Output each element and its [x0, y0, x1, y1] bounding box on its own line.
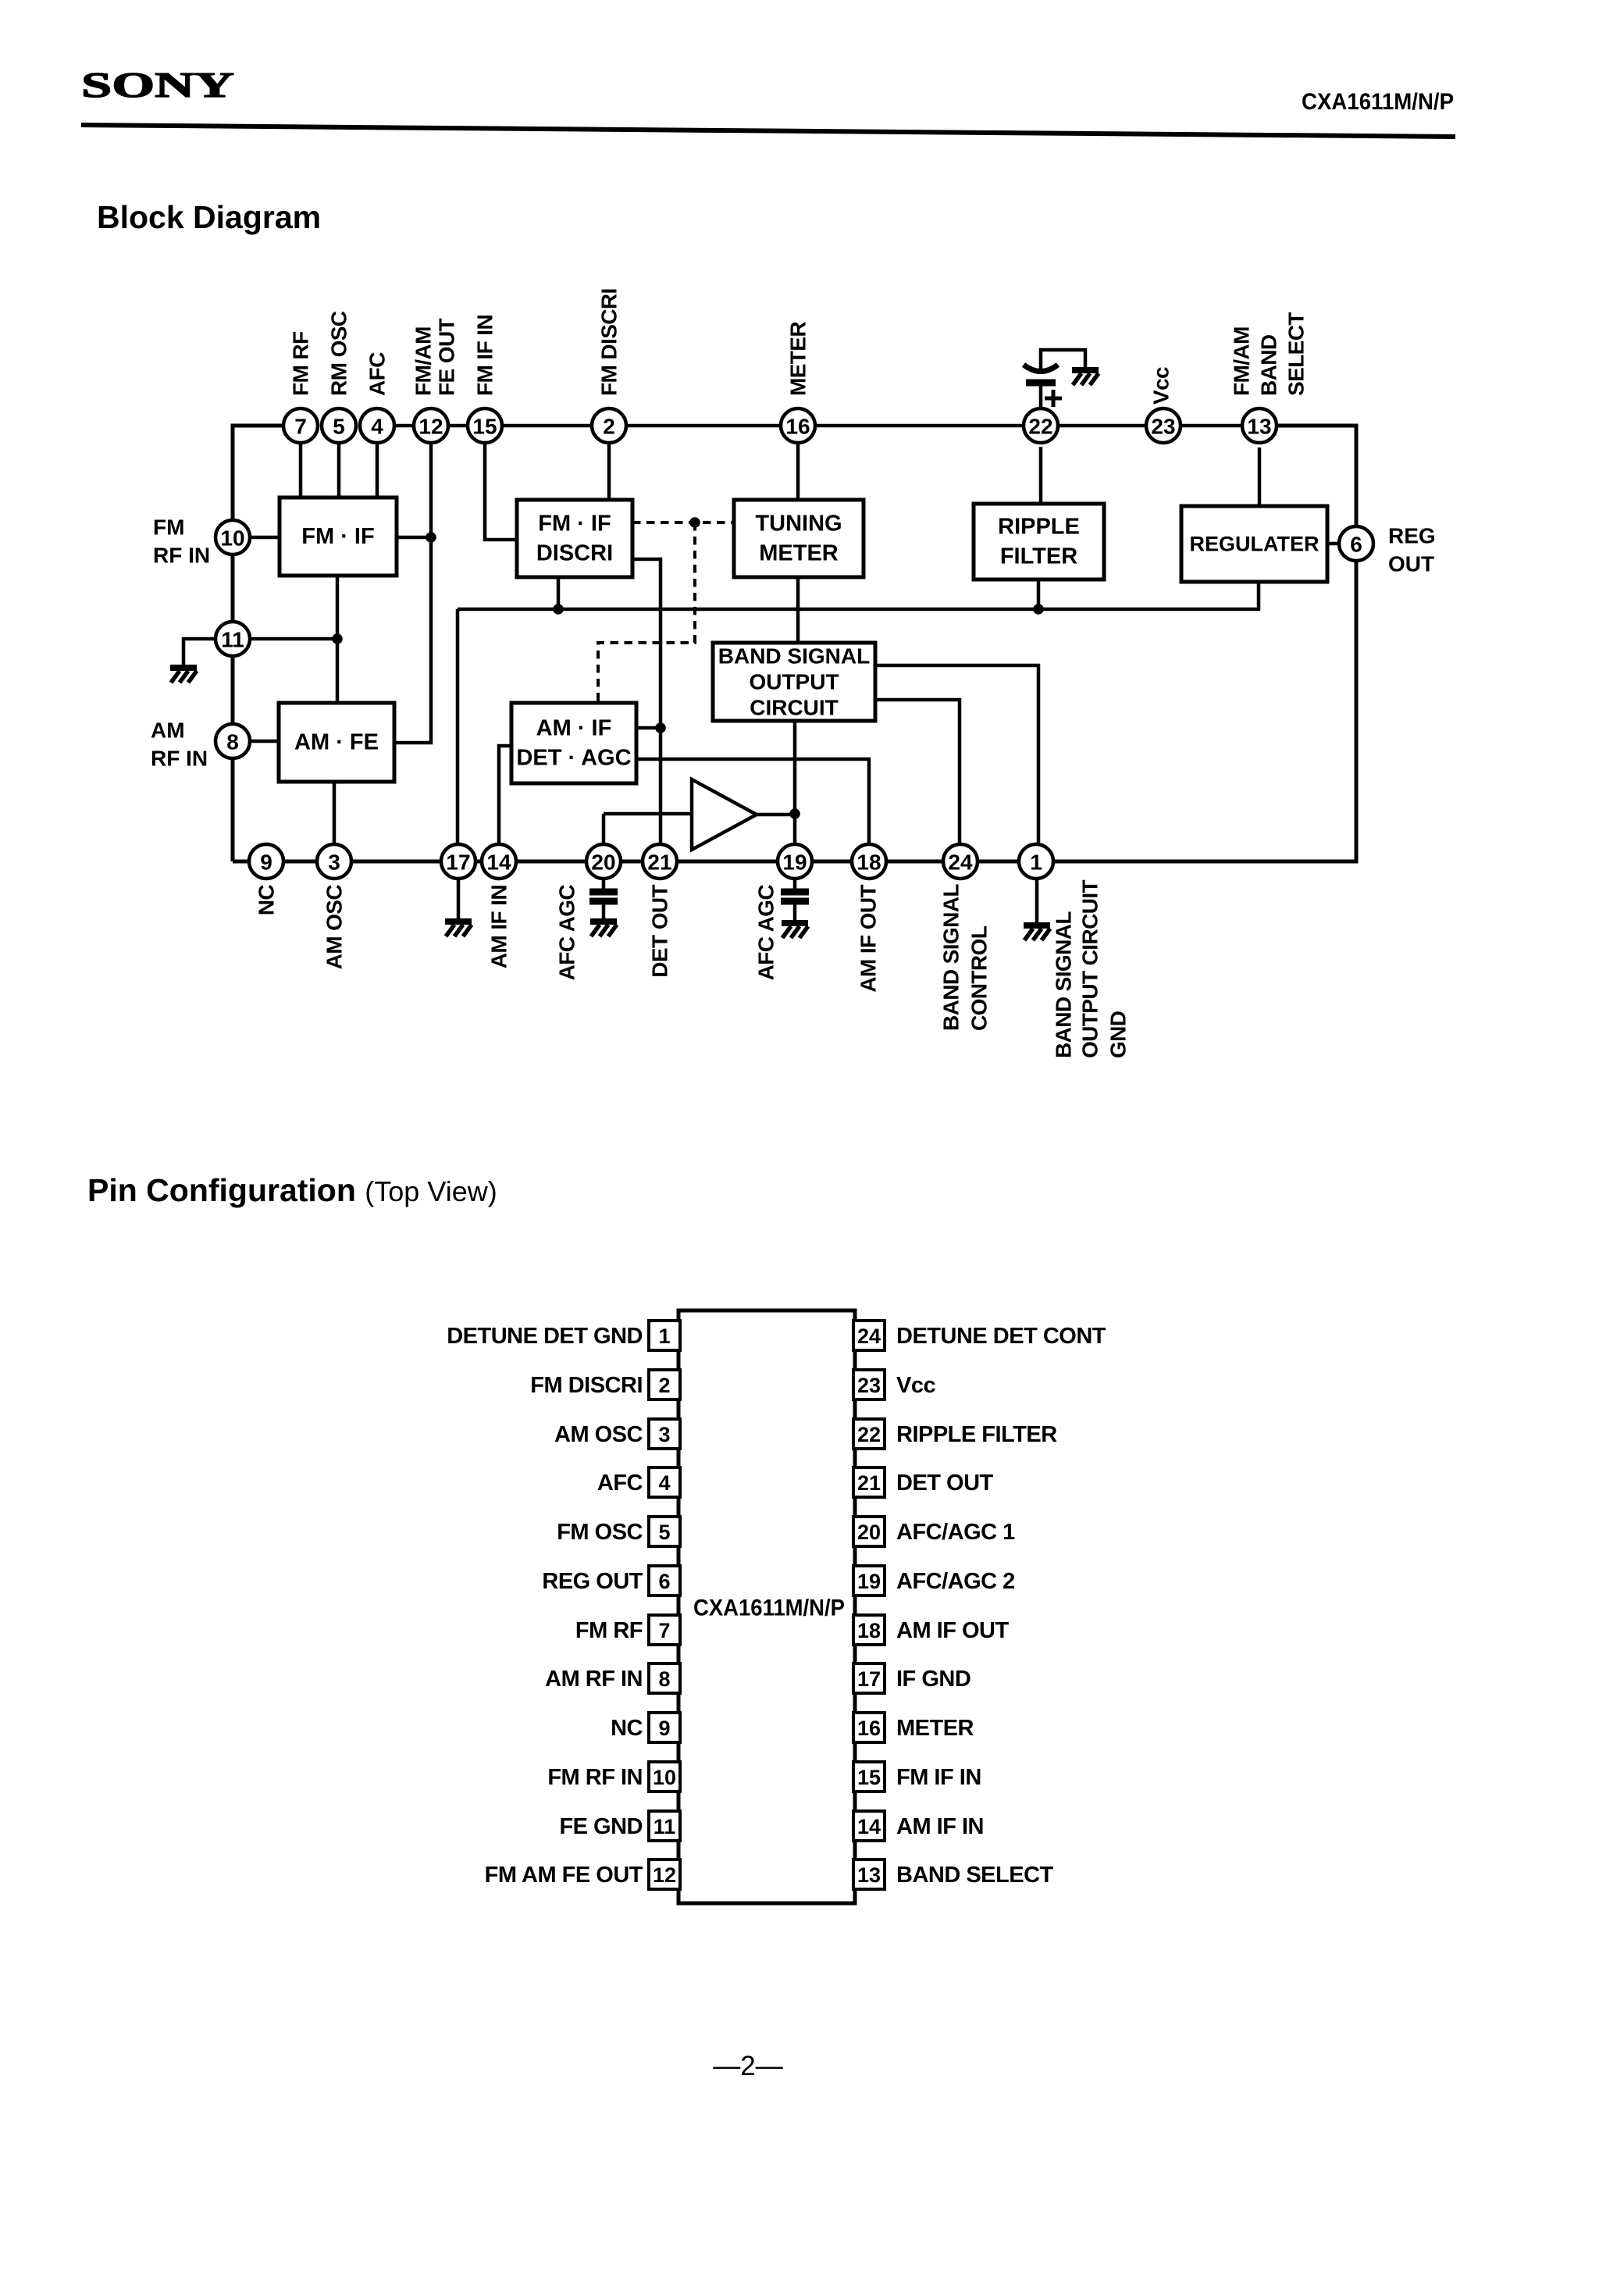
- svg-text:16: 16: [857, 1717, 881, 1740]
- ground at pin 11: [170, 668, 197, 683]
- dashed wire: DISCRI to TUNING METER: [632, 521, 734, 524]
- label pin 15 FM IF IN: [473, 315, 497, 396]
- pin 11 box: [649, 1811, 680, 1841]
- svg-text:23: 23: [1151, 415, 1175, 439]
- svg-text:NC: NC: [255, 885, 279, 916]
- ground at capacitor C1: [1072, 370, 1099, 385]
- label pin 14 AM IF IN: [487, 885, 511, 968]
- label pin 13 FM/AM BAND SELECT: [1230, 312, 1309, 396]
- wire: capacitor C2 to ground: [602, 904, 606, 920]
- svg-text:CIRCUIT: CIRCUIT: [750, 696, 839, 720]
- wire: FM-IF output to pin 12 net: [397, 536, 431, 540]
- label pin 8 AM RF IN: [151, 718, 208, 771]
- pin 8 terminal: [215, 724, 250, 758]
- svg-text:3: 3: [658, 1423, 670, 1446]
- junction: ripple filter on bus: [1033, 604, 1044, 615]
- wire: pin 2 to pin 16: [626, 424, 781, 428]
- svg-text:FM/AM: FM/AM: [1230, 326, 1254, 396]
- pin 14 box: [853, 1811, 885, 1841]
- svg-text:SELECT: SELECT: [1284, 312, 1309, 396]
- label pin 19 AFC AGC: [754, 885, 778, 981]
- svg-text:8: 8: [658, 1667, 670, 1691]
- svg-text:AM IF IN: AM IF IN: [487, 885, 511, 968]
- pin 6 box: [649, 1566, 680, 1596]
- svg-text:8: 8: [226, 730, 239, 754]
- pin 15 box: [853, 1762, 885, 1792]
- svg-text:AM IF OUT: AM IF OUT: [896, 1618, 1009, 1643]
- svg-text:14: 14: [857, 1815, 881, 1838]
- label pin 3 AM OSC: [322, 885, 347, 970]
- pin 23 terminal: [1146, 408, 1181, 443]
- block AM-IF DET-AGC: [511, 703, 636, 783]
- svg-text:AFC AGC: AFC AGC: [555, 885, 579, 981]
- svg-text:FM OSC: FM OSC: [557, 1520, 643, 1545]
- svg-text:5: 5: [333, 415, 345, 439]
- pin 21 terminal: [643, 844, 677, 879]
- svg-text:14: 14: [486, 850, 511, 875]
- pin 5 terminal: [322, 408, 356, 443]
- wire: pin 8 to AM-FE input: [250, 740, 279, 743]
- pin 7 terminal: [283, 408, 318, 443]
- svg-text:22: 22: [1028, 415, 1052, 439]
- svg-text:METER: METER: [786, 322, 810, 396]
- pin 9 terminal: [249, 844, 283, 879]
- svg-text:RIPPLE: RIPPLE: [998, 515, 1080, 540]
- svg-text:DETUNE DET CONT: DETUNE DET CONT: [896, 1324, 1106, 1349]
- pin 18 terminal: [852, 844, 886, 879]
- wire: amp output: [757, 813, 795, 817]
- junction: AM-IF out on pin 21 net: [655, 722, 666, 733]
- wire: AM-IF DET-AGC out1 to pin 21 net: [636, 726, 661, 730]
- svg-text:FM RF: FM RF: [289, 331, 313, 396]
- pin 7 box: [649, 1615, 680, 1645]
- pin 24 box: [853, 1321, 885, 1350]
- svg-text:11: 11: [654, 1815, 676, 1838]
- IC package body CXA1611M/N/P: [678, 1310, 855, 1903]
- wire: pin 23 to pin 13: [1181, 424, 1242, 428]
- wire: pin 12 to pin 15: [448, 424, 468, 428]
- svg-text:1: 1: [658, 1325, 670, 1348]
- header rule: [81, 125, 1455, 137]
- svg-text:5: 5: [658, 1521, 670, 1544]
- pin 1 box: [649, 1321, 680, 1350]
- pin 19 terminal: [778, 844, 812, 879]
- svg-text:TUNING: TUNING: [755, 512, 842, 537]
- label pin 12 FM/AM FE OUT: [411, 318, 459, 396]
- svg-text:16: 16: [785, 415, 810, 439]
- pin 10 box: [649, 1762, 680, 1792]
- label pin 21 DET OUT: [648, 885, 672, 978]
- pin 12 box: [649, 1859, 680, 1889]
- svg-text:1: 1: [1030, 850, 1042, 875]
- wire: AM-FE bottom to pin 3: [333, 782, 337, 844]
- wire: pin 11 to FM-IF/AM-FE net: [250, 637, 337, 641]
- pin 17 terminal: [441, 844, 475, 879]
- label pin 16 METER: [786, 322, 810, 396]
- svg-text:23: 23: [857, 1374, 881, 1397]
- svg-text:10: 10: [220, 526, 244, 551]
- svg-text:9: 9: [658, 1717, 670, 1740]
- svg-text:AM IF IN: AM IF IN: [896, 1814, 984, 1839]
- pin 10 terminal: [215, 520, 250, 554]
- svg-text:AM RF IN: AM RF IN: [545, 1667, 643, 1692]
- pin 13 box: [853, 1859, 885, 1889]
- svg-text:15: 15: [857, 1766, 881, 1789]
- pin 2 box: [649, 1370, 680, 1400]
- svg-text:AM IF OUT: AM IF OUT: [857, 885, 881, 993]
- svg-text:Vcc: Vcc: [1149, 367, 1173, 405]
- label pin 5 RM OSC: [327, 311, 351, 396]
- pin 16 box: [853, 1713, 885, 1742]
- svg-text:FM IF IN: FM IF IN: [473, 315, 497, 396]
- svg-text:AFC: AFC: [365, 352, 390, 396]
- wire: REGULATER to pin 6: [1327, 542, 1339, 546]
- svg-text:BAND SIGNAL: BAND SIGNAL: [939, 884, 963, 1031]
- svg-text:BAND SELECT: BAND SELECT: [896, 1863, 1054, 1888]
- svg-text:6: 6: [1350, 533, 1362, 557]
- label pin 23 Vcc: [1149, 367, 1173, 405]
- plus sign of C1: [1045, 390, 1062, 407]
- svg-text:SONY: SONY: [81, 65, 234, 105]
- svg-text:METER: METER: [759, 541, 839, 566]
- wire: pin 22 to capacitor C1: [1039, 386, 1043, 412]
- wire: pin 10 to FM-IF input: [250, 536, 280, 540]
- svg-text:12: 12: [418, 415, 443, 439]
- svg-text:4: 4: [658, 1471, 670, 1495]
- pin 24 terminal: [943, 844, 978, 879]
- wire: pin 20 to capacitor C2: [602, 879, 606, 890]
- svg-text:OUTPUT CIRCUIT: OUTPUT CIRCUIT: [1078, 879, 1102, 1058]
- pin 20 box: [853, 1517, 885, 1546]
- svg-text:REGULATER: REGULATER: [1190, 533, 1319, 556]
- block RIPPLE FILTER: [974, 504, 1104, 579]
- svg-text:AM OSC: AM OSC: [554, 1422, 643, 1447]
- junction: FM-IF output on pin 12 net: [426, 532, 436, 543]
- svg-text:21: 21: [647, 850, 671, 875]
- svg-text:AM · IF: AM · IF: [536, 716, 612, 741]
- svg-text:2: 2: [658, 1374, 670, 1397]
- svg-text:FM AM FE OUT: FM AM FE OUT: [485, 1863, 643, 1888]
- svg-text:24: 24: [857, 1325, 881, 1348]
- svg-text:FM: FM: [153, 515, 184, 540]
- pin 14 terminal: [482, 844, 516, 879]
- svg-text:FM RF: FM RF: [575, 1618, 643, 1643]
- svg-text:FM/AM: FM/AM: [411, 326, 436, 396]
- svg-text:CONTROL: CONTROL: [967, 925, 992, 1031]
- pin 13 terminal: [1242, 408, 1277, 443]
- junction: amp output to pin 19: [789, 808, 800, 819]
- wire: FM-IF bottom to AM-FE top: [336, 576, 340, 703]
- pin 3 box: [649, 1419, 680, 1449]
- wire: pin 13 over right trunk down to pin 1: [1053, 426, 1356, 861]
- svg-text:18: 18: [857, 850, 881, 875]
- svg-text:FM DISCRI: FM DISCRI: [530, 1373, 643, 1398]
- svg-text:DISCRI: DISCRI: [536, 541, 613, 566]
- svg-text:2: 2: [603, 415, 615, 439]
- pin 22 box: [853, 1419, 885, 1449]
- wire: capacitor C1 to ground: [1041, 350, 1085, 369]
- svg-text:7: 7: [294, 415, 307, 439]
- pin 9 box: [649, 1713, 680, 1742]
- svg-text:AM · FE: AM · FE: [294, 730, 379, 755]
- wire: pin 16 to pin 22: [815, 424, 1024, 428]
- svg-text:IF GND: IF GND: [896, 1667, 970, 1692]
- svg-text:19: 19: [857, 1570, 881, 1593]
- svg-text:AFC/AGC 1: AFC/AGC 1: [896, 1520, 1015, 1545]
- svg-text:11: 11: [221, 628, 244, 652]
- svg-text:24: 24: [948, 850, 973, 875]
- svg-text:13: 13: [1247, 415, 1271, 439]
- svg-text:CXA1611M/N/P: CXA1611M/N/P: [693, 1596, 845, 1621]
- svg-text:19: 19: [782, 850, 807, 875]
- pin 21 box: [853, 1467, 885, 1497]
- svg-text:BAND SIGNAL: BAND SIGNAL: [1052, 911, 1076, 1058]
- wire: pin 5 to FM-IF block: [337, 443, 341, 497]
- wire: pin 15 to FM-IF-DISCRI input: [485, 443, 517, 540]
- svg-text:13: 13: [857, 1863, 881, 1887]
- op-amp buffer amplifier: [692, 779, 757, 850]
- svg-text:DET · AGC: DET · AGC: [516, 746, 631, 771]
- pin 18 box: [853, 1615, 885, 1645]
- junction: dashed net: [689, 517, 700, 528]
- svg-text:FM IF IN: FM IF IN: [896, 1765, 981, 1790]
- svg-text:18: 18: [857, 1619, 881, 1642]
- svg-text:BAND: BAND: [1257, 334, 1281, 396]
- pin 3 terminal: [317, 844, 351, 879]
- svg-text:Pin Configuration (Top View): Pin Configuration (Top View): [87, 1172, 497, 1208]
- wire: pin 20 to amp input: [604, 812, 692, 816]
- wire: TUNING METER bottom to BAND SIGNAL top: [796, 577, 800, 643]
- svg-text:22: 22: [857, 1423, 881, 1446]
- svg-text:AFC/AGC 2: AFC/AGC 2: [896, 1569, 1015, 1594]
- svg-text:12: 12: [653, 1863, 676, 1887]
- svg-text:20: 20: [591, 850, 615, 875]
- pin 5 box: [649, 1517, 680, 1546]
- wire: pin 7 to FM-IF block: [299, 443, 303, 497]
- svg-text:FE GND: FE GND: [559, 1814, 643, 1839]
- svg-text:AFC AGC: AFC AGC: [754, 885, 778, 981]
- wire: pin 17 to ground: [457, 879, 461, 918]
- svg-text:AM OSC: AM OSC: [322, 885, 347, 970]
- wire: amp input down to pin 20: [602, 814, 606, 844]
- svg-text:FM · IF: FM · IF: [538, 512, 611, 537]
- svg-text:REG OUT: REG OUT: [542, 1569, 643, 1594]
- label pin 20 AFC AGC: [555, 885, 579, 981]
- label pin 24 BAND SIGNAL CONTROL: [939, 884, 992, 1031]
- label pin 1 BAND SIGNAL OUTPUT CIRCUIT GND: [1052, 879, 1131, 1058]
- pin 23 box: [853, 1370, 885, 1400]
- pin 16 terminal: [781, 408, 815, 443]
- dashed wire: AGC feedback to AM-IF DET-AGC: [598, 522, 695, 703]
- svg-text:GND: GND: [1106, 1011, 1131, 1058]
- label pin 9 NC: [255, 885, 279, 916]
- pin 17 box: [853, 1663, 885, 1693]
- ground at pin 17: [445, 922, 472, 936]
- svg-text:6: 6: [658, 1570, 670, 1593]
- block BAND SIGNAL OUTPUT CIRCUIT: [713, 643, 875, 721]
- svg-text:15: 15: [472, 415, 497, 439]
- pin 20 terminal: [586, 844, 621, 879]
- svg-text:—2—: —2—: [713, 2051, 782, 2081]
- svg-text:METER: METER: [896, 1716, 974, 1741]
- svg-text:7: 7: [658, 1619, 670, 1642]
- wire: pin 1 to ground: [1035, 879, 1039, 922]
- wire: capacitor C3 to ground: [793, 904, 797, 922]
- wire: BAND SIGNAL out1 to pin 1: [875, 665, 1038, 844]
- wire: pin 11 to ground: [183, 639, 215, 665]
- wire: pin 19 to capacitor C3: [793, 879, 797, 890]
- pin 12 terminal: [414, 408, 448, 443]
- svg-text:FM DISCRI: FM DISCRI: [597, 288, 621, 396]
- wire: bus down to pin 17: [456, 609, 460, 844]
- svg-text:BAND SIGNAL: BAND SIGNAL: [718, 644, 870, 669]
- svg-text:Vcc: Vcc: [896, 1373, 935, 1398]
- pin 8 box: [649, 1663, 680, 1693]
- ground at pin 1: [1024, 925, 1050, 940]
- pin 19 box: [853, 1566, 885, 1596]
- wire: FM-IF-DISCRI bottom to bus: [557, 577, 561, 609]
- label pin 4 AFC: [365, 352, 390, 396]
- svg-text:RF IN: RF IN: [151, 747, 208, 771]
- wire: mid horizontal bus to REGULATER bottom: [458, 582, 1259, 609]
- wire: bottom bus through pins: [233, 860, 1356, 864]
- wire: pin 15 to pin 2: [502, 424, 592, 428]
- pin 15 terminal: [468, 408, 502, 443]
- pin 4 box: [649, 1467, 680, 1497]
- svg-text:AM: AM: [151, 718, 185, 743]
- block REGULATER: [1181, 506, 1327, 582]
- wire: pin 4 to FM-IF block: [376, 443, 379, 497]
- wire: pin 22 to pin 23: [1058, 424, 1146, 428]
- capacitor C3 at pin 19: [781, 892, 809, 901]
- label pin 2 FM DISCRI: [597, 288, 621, 396]
- wire: top-left trunk from pin 7 down left side: [233, 426, 283, 861]
- svg-text:DETUNE DET GND: DETUNE DET GND: [447, 1324, 643, 1349]
- label pin 7 FM RF: [289, 331, 313, 396]
- svg-text:4: 4: [371, 415, 383, 439]
- svg-text:17: 17: [446, 850, 470, 875]
- capacitor C1 (electrolytic, ripple filter): [1024, 365, 1058, 383]
- wire: pin 12 down to AM-FE output: [394, 443, 431, 743]
- label pin 18 AM IF OUT: [857, 885, 881, 993]
- pin 6 terminal: [1339, 526, 1373, 561]
- wire: pin 22 to RIPPLE FILTER top: [1039, 447, 1043, 504]
- svg-text:FILTER: FILTER: [1000, 544, 1077, 569]
- svg-text:20: 20: [857, 1521, 881, 1544]
- svg-text:AFC: AFC: [597, 1471, 643, 1496]
- wire: RIPPLE FILTER bottom to bus: [1037, 579, 1041, 609]
- svg-text:FM · IF: FM · IF: [301, 524, 374, 549]
- svg-text:RF IN: RF IN: [153, 544, 210, 568]
- capacitor C2 at pin 20: [589, 892, 618, 901]
- label pin 6 REG OUT: [1388, 524, 1436, 576]
- junction: DISCRI bottom on bus: [553, 604, 564, 615]
- wire: pin 4 to pin 12: [394, 424, 414, 428]
- pin 1 terminal: [1019, 844, 1053, 879]
- svg-text:9: 9: [260, 850, 272, 875]
- svg-text:3: 3: [328, 850, 340, 875]
- wire: pin 13 to REGULATER top: [1258, 447, 1262, 506]
- svg-text:NC: NC: [611, 1716, 643, 1741]
- ground at capacitor C2: [590, 922, 617, 936]
- block FM-IF: [280, 497, 397, 576]
- svg-text:Block Diagram: Block Diagram: [97, 199, 321, 235]
- svg-text:RIPPLE FILTER: RIPPLE FILTER: [896, 1422, 1057, 1447]
- wire: FM-IF-DISCRI out to pin 21: [632, 559, 661, 844]
- svg-text:OUTPUT: OUTPUT: [749, 670, 839, 694]
- wire: BAND SIGNAL bottom to amp output net: [793, 721, 797, 814]
- block AM-FE: [279, 703, 394, 782]
- pin 22 terminal: [1024, 408, 1058, 443]
- pin 11 terminal: [215, 622, 250, 656]
- pin 2 terminal: [592, 408, 626, 443]
- svg-text:17: 17: [857, 1667, 881, 1691]
- svg-text:OUT: OUT: [1388, 552, 1434, 576]
- svg-text:RM OSC: RM OSC: [327, 311, 351, 396]
- svg-text:REG: REG: [1388, 524, 1436, 548]
- junction: pin 11 net: [332, 633, 343, 644]
- svg-text:CXA1611M/N/P: CXA1611M/N/P: [1302, 89, 1454, 115]
- label pin 10 FM RF IN: [153, 515, 210, 568]
- svg-text:21: 21: [857, 1471, 881, 1495]
- svg-text:DET OUT: DET OUT: [896, 1471, 994, 1496]
- svg-text:FE OUT: FE OUT: [435, 318, 459, 396]
- block FM-IF DISCRI: [517, 500, 632, 577]
- svg-text:FM RF IN: FM RF IN: [547, 1765, 643, 1790]
- ground at capacitor C3: [782, 923, 808, 938]
- wire: pin 2 to FM-IF-DISCRI top: [607, 443, 611, 500]
- wire: pin 16 to TUNING METER top: [796, 443, 800, 500]
- svg-text:10: 10: [653, 1766, 676, 1789]
- wire: junction down to pin 19: [793, 814, 797, 844]
- svg-text:DET OUT: DET OUT: [648, 885, 672, 978]
- pin 4 terminal: [360, 408, 394, 443]
- wire: BAND SIGNAL out2 to pin 24: [875, 700, 960, 844]
- wire: AM-IF DET-AGC input from pin 14: [499, 746, 511, 844]
- wire: AM-IF DET-AGC out2 to pin 18: [636, 759, 869, 844]
- block TUNING METER: [734, 500, 864, 577]
